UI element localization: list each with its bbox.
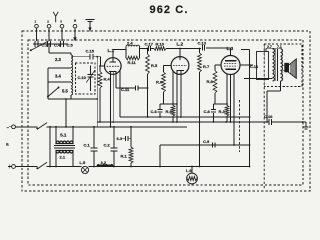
capacitor 6.3 bbox=[117, 136, 132, 141]
transformer S1 primary bbox=[56, 141, 73, 144]
wire coupling to C13 bbox=[180, 48, 201, 50]
svg-text:S.1: S.1 bbox=[60, 132, 67, 137]
bus wire A bbox=[120, 116, 250, 118]
wire mains bottom 2 bbox=[47, 166, 82, 168]
svg-text:R.8: R.8 bbox=[207, 79, 214, 84]
mains terminal top bbox=[7, 125, 16, 130]
wire coil block down bbox=[65, 98, 67, 128]
transformer S1 label bbox=[60, 132, 67, 137]
mains switch bottom bbox=[36, 162, 47, 169]
wire S1 left risers bbox=[49, 126, 57, 168]
valve L1 grid2 lead bbox=[116, 71, 120, 118]
transformer S1 secondary bbox=[56, 151, 73, 154]
svg-text:C.15: C.15 bbox=[86, 48, 95, 53]
mains marker bbox=[6, 142, 9, 147]
speaker transformer core bbox=[276, 49, 278, 81]
barretter lamp L6 bbox=[187, 166, 198, 184]
wire S1 right risers bbox=[72, 126, 74, 167]
terminal 1 bbox=[35, 24, 39, 41]
resistor R3 bbox=[219, 104, 229, 122]
resistor R6 bbox=[156, 66, 165, 93]
capacitor C9 bbox=[203, 139, 215, 148]
svg-text:R.4: R.4 bbox=[104, 77, 111, 82]
wire L3 anode out bbox=[240, 64, 253, 66]
svg-text:962 C.: 962 C. bbox=[150, 4, 189, 16]
svg-text:R.11: R.11 bbox=[128, 60, 137, 65]
svg-text:C.10: C.10 bbox=[78, 75, 87, 80]
terminal 3 label bbox=[60, 19, 62, 23]
valve L2 cathode leads bbox=[173, 71, 181, 122]
wire C9 row bbox=[160, 121, 250, 146]
capacitor C1 bbox=[84, 126, 98, 168]
wire bottom rail bbox=[113, 166, 250, 168]
wire mains top bbox=[15, 126, 37, 128]
capacitor C3 bbox=[35, 41, 48, 47]
range switch arm bbox=[47, 87, 60, 98]
valve L3 grids bbox=[224, 63, 237, 66]
svg-text:C.16: C.16 bbox=[264, 114, 273, 119]
dashed speaker enclosure box bbox=[264, 44, 302, 87]
speaker transformer label 2.7 bbox=[267, 45, 272, 49]
pilot lamp L5 bbox=[81, 166, 88, 173]
valve L1 cathode leads bbox=[111, 72, 114, 127]
speaker transformer primary bbox=[273, 49, 275, 81]
capacitor C11 bbox=[116, 86, 148, 93]
wire L3 cathode out bbox=[244, 78, 273, 80]
svg-text:L.3: L.3 bbox=[227, 46, 234, 51]
loudspeaker bbox=[285, 59, 297, 79]
valve L3 cathode bbox=[226, 68, 236, 70]
wire mid riser bbox=[199, 121, 251, 167]
wire C11 down bbox=[147, 87, 149, 117]
svg-text:C.6: C.6 bbox=[151, 109, 158, 114]
svg-text:2.3: 2.3 bbox=[55, 57, 61, 62]
svg-text:R.9: R.9 bbox=[166, 109, 173, 114]
capacitor C8 bbox=[204, 104, 217, 122]
title text 962 C. bbox=[150, 4, 189, 16]
earth symbol (aerial ground) bbox=[86, 19, 95, 31]
wire C9 left down bbox=[159, 145, 161, 167]
wire C13 to L3 grid bbox=[206, 48, 231, 56]
anode load coil 2.4 bbox=[126, 41, 140, 47]
valve L1 cathode bbox=[109, 71, 117, 73]
wire tuning branch bbox=[96, 56, 98, 127]
wire coil top to grid bbox=[71, 56, 101, 58]
wire transformer top bbox=[266, 48, 281, 51]
wire transformer secondary down bbox=[266, 81, 280, 123]
wave-range switch arm (aerial) bbox=[30, 41, 49, 51]
svg-text:L.5: L.5 bbox=[80, 160, 87, 165]
capacitor C4 bbox=[48, 41, 61, 47]
svg-text:3.4: 3.4 bbox=[55, 74, 61, 79]
valve L1 anode bbox=[110, 58, 117, 62]
anode load left node bbox=[125, 47, 127, 59]
valve L3 envelope bbox=[221, 56, 240, 75]
trimmer box (dashed) bbox=[76, 63, 96, 94]
wire mains top 2 bbox=[47, 126, 188, 128]
svg-text:C.8: C.8 bbox=[204, 109, 211, 114]
bus junctions bbox=[99, 116, 250, 128]
valve L2 grid lead left bbox=[164, 65, 172, 67]
terminal 1 label bbox=[35, 19, 37, 23]
resistor R7 bbox=[198, 48, 210, 72]
wire mains bottom bbox=[15, 166, 37, 168]
svg-text:R.6: R.6 bbox=[156, 80, 163, 85]
svg-text:2.1: 2.1 bbox=[60, 155, 66, 160]
wire tap bus bbox=[47, 68, 49, 97]
anode load right node bbox=[139, 47, 141, 59]
valve L2 grid bbox=[173, 65, 187, 67]
svg-text:C.13: C.13 bbox=[198, 40, 207, 45]
capacitor C6 bbox=[151, 104, 163, 117]
terminal 4 arrow bbox=[74, 19, 76, 22]
mains switch top bbox=[36, 123, 47, 130]
valve L2 cathode bbox=[176, 70, 184, 72]
wire cap row down bbox=[48, 44, 50, 53]
terminal 2 label bbox=[47, 19, 49, 23]
bus wire B bbox=[97, 121, 269, 123]
dashed shield partition (speaker section) bbox=[263, 44, 265, 190]
wire load to C17 bbox=[140, 48, 149, 50]
wire grid corner bbox=[101, 57, 105, 66]
capacitor C5 bbox=[61, 41, 74, 47]
heater choke 3.2 bbox=[97, 160, 113, 167]
svg-text:R.7: R.7 bbox=[203, 64, 210, 69]
speaker transformer label 7.1 bbox=[277, 45, 282, 49]
output transformer can bbox=[257, 52, 269, 80]
wire R5 down bbox=[147, 74, 149, 88]
outer dashed chassis box bbox=[22, 31, 310, 191]
transformer S1 core bbox=[54, 146, 75, 148]
valve L3 label bbox=[227, 46, 234, 51]
valve L3 anode bbox=[225, 60, 237, 62]
valve L1 label bbox=[108, 48, 115, 53]
wire R7 down bbox=[199, 72, 201, 122]
svg-text:C.1: C.1 bbox=[84, 143, 91, 148]
valve L3 screen lead bbox=[215, 65, 221, 71]
resistor R5 bbox=[146, 48, 158, 74]
wire coil bottom bbox=[48, 95, 97, 99]
wire cluster tie bbox=[160, 103, 178, 105]
svg-text:L.6: L.6 bbox=[186, 169, 192, 173]
svg-text:5.5: 5.5 bbox=[62, 89, 68, 94]
valve L2 envelope bbox=[171, 57, 189, 75]
wire L1 anode lead bbox=[113, 50, 126, 58]
resistor R9 bbox=[166, 104, 175, 122]
wire R8 down bbox=[214, 93, 216, 104]
barretter L6 label bbox=[186, 169, 192, 173]
speaker transformer secondary bbox=[281, 49, 283, 81]
wire lamp to choke bbox=[89, 166, 97, 168]
svg-text:R.1: R.1 bbox=[121, 154, 128, 159]
dashed gang link bbox=[239, 100, 241, 152]
capacitor C14 label bbox=[250, 65, 259, 69]
svg-text:2.4: 2.4 bbox=[127, 41, 133, 46]
svg-text:L.2: L.2 bbox=[177, 41, 184, 46]
trimmer capacitor C10 bbox=[78, 66, 95, 92]
resistor R4 bbox=[98, 65, 110, 88]
svg-text:a: a bbox=[6, 142, 9, 147]
coil tap label 2.3 bbox=[55, 57, 61, 62]
svg-text:C.17: C.17 bbox=[145, 41, 154, 46]
resistor R1 bbox=[121, 126, 134, 168]
svg-text:L.1: L.1 bbox=[108, 48, 115, 53]
svg-text:R.5: R.5 bbox=[151, 63, 158, 68]
svg-text:C.9: C.9 bbox=[203, 139, 210, 144]
mains terminal bottom bbox=[8, 165, 16, 169]
wire antenna cap row bbox=[33, 43, 68, 45]
wire to coil top bbox=[49, 53, 71, 55]
terminal 2 bbox=[47, 24, 51, 41]
svg-text:R.3: R.3 bbox=[219, 109, 226, 114]
wire speaker leads bbox=[283, 65, 285, 70]
valve L2 label bbox=[177, 41, 184, 46]
wire C16 to earth bbox=[272, 121, 306, 123]
capacitor C2 bbox=[104, 126, 118, 168]
svg-text:C.5: C.5 bbox=[67, 42, 74, 47]
capacitor C17 bbox=[145, 41, 154, 51]
antenna symbol bbox=[53, 12, 58, 22]
svg-text:C.11: C.11 bbox=[121, 87, 130, 92]
wire coil tap lower bbox=[48, 81, 71, 83]
capacitor C16 bbox=[264, 114, 273, 125]
wire R6 down bbox=[163, 92, 165, 104]
terminal 4 bbox=[73, 24, 77, 41]
wire switch to bottom bbox=[47, 97, 49, 100]
pilot lamp L5 label bbox=[80, 160, 87, 165]
transformer S1 winding label bbox=[60, 155, 66, 160]
svg-text:6.3: 6.3 bbox=[117, 136, 123, 141]
wire cluster tie 2 bbox=[214, 103, 228, 105]
coil tap label 3.4 bbox=[55, 74, 61, 79]
svg-text:C.2: C.2 bbox=[104, 143, 111, 148]
tuning coil L (winding) bbox=[71, 55, 73, 95]
valve L3 bottom leads bbox=[227, 74, 234, 146]
wire coil tap upper bbox=[48, 67, 71, 69]
capacitor C15 bbox=[86, 48, 95, 59]
svg-text:R.10: R.10 bbox=[156, 41, 165, 46]
chassis earth symbol bbox=[304, 122, 309, 129]
resistor R10 bbox=[151, 41, 166, 50]
node cap row to coil bbox=[48, 43, 50, 45]
anode load resistor R11 bbox=[126, 56, 140, 65]
svg-text:C.14: C.14 bbox=[250, 65, 259, 69]
node HT rail top bbox=[241, 50, 250, 66]
resistor R8 bbox=[207, 71, 217, 94]
HT rail bbox=[249, 50, 251, 168]
terminal 3 bbox=[60, 24, 64, 41]
valve L1 grid bbox=[107, 65, 119, 67]
coil tap label 5.5 bbox=[62, 89, 68, 94]
inner dashed shield box bbox=[28, 40, 303, 185]
svg-text:C.4: C.4 bbox=[54, 42, 61, 47]
wire top coupling bbox=[166, 48, 180, 50]
wire L2 top lead bbox=[179, 48, 181, 60]
wire R4 down bbox=[99, 88, 101, 122]
capacitor C13 bbox=[198, 40, 207, 50]
valve L1 envelope bbox=[105, 58, 122, 75]
